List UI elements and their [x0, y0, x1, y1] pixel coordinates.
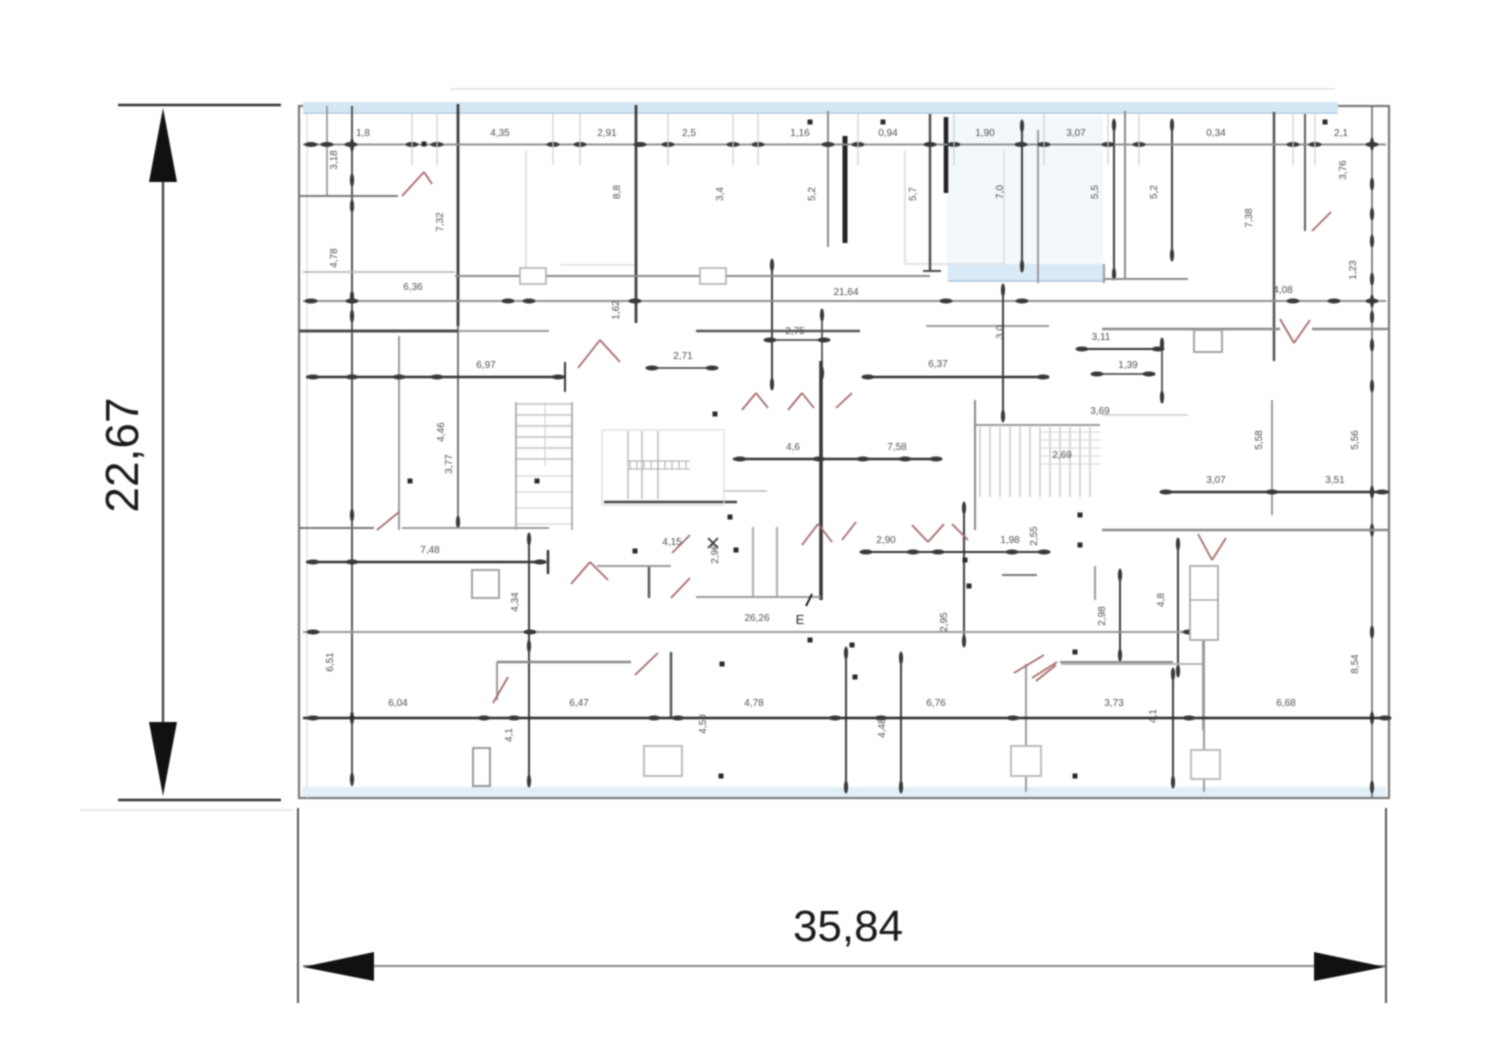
- extension line bottom-left: [297, 808, 299, 1003]
- svg-text:5,5: 5,5: [1090, 185, 1101, 199]
- svg-text:6,68: 6,68: [1276, 698, 1296, 709]
- vert dim line: [1021, 122, 1023, 271]
- svg-text:1,62: 1,62: [611, 300, 622, 320]
- bottom dimension line: [303, 717, 1386, 719]
- wall: [1271, 400, 1273, 515]
- svg-text:1,8: 1,8: [356, 128, 370, 139]
- shaft: [1190, 566, 1218, 640]
- dimension extension tick top-left: [118, 104, 281, 107]
- svg-text:0,94: 0,94: [878, 128, 898, 139]
- vert dim line: [1177, 539, 1179, 676]
- top dimension line: [303, 144, 1386, 146]
- svg-text:6,47: 6,47: [569, 698, 589, 709]
- svg-text:2,96: 2,96: [710, 544, 721, 564]
- svg-text:7,32: 7,32: [435, 212, 446, 232]
- blue band bottom: [302, 787, 1386, 797]
- blue sill right: [948, 264, 1104, 281]
- svg-text:2,55: 2,55: [1029, 526, 1040, 546]
- dim line 2,90: [860, 551, 1050, 553]
- extension stub: [857, 114, 859, 165]
- hinge dots: [713, 412, 718, 417]
- wall: [929, 114, 931, 271]
- wall: [1025, 664, 1027, 792]
- wall: [326, 106, 328, 196]
- vert dim line: [1371, 106, 1373, 797]
- dim line 4,6/7,58: [733, 458, 942, 460]
- extension stub: [411, 114, 413, 165]
- mid dimension line 21,64: [303, 300, 1386, 302]
- vertical dimension line 22,67: [162, 180, 164, 724]
- svg-text:6,04: 6,04: [388, 698, 408, 709]
- wall: [1104, 278, 1188, 280]
- svg-text:7,58: 7,58: [887, 442, 907, 453]
- extension stub: [757, 114, 759, 165]
- extension line bottom-right: [1385, 808, 1387, 1003]
- vert dim line: [1002, 285, 1004, 421]
- svg-text:7,48: 7,48: [420, 545, 440, 556]
- svg-text:3,18: 3,18: [329, 150, 340, 170]
- extension stub: [953, 114, 955, 165]
- svg-text:5,2: 5,2: [807, 187, 818, 201]
- extension stub: [1107, 114, 1109, 165]
- svg-text:3,69: 3,69: [1090, 406, 1110, 417]
- svg-text:2,98: 2,98: [1097, 606, 1108, 626]
- wall: [1094, 566, 1096, 600]
- wall: [1202, 597, 1204, 730]
- vert dim line: [845, 648, 847, 792]
- svg-text:2,91: 2,91: [597, 128, 617, 139]
- column: [644, 746, 682, 776]
- arrowhead up: [149, 108, 177, 182]
- wall: [455, 275, 636, 277]
- wall: [1102, 328, 1280, 330]
- dim line 2,71: [648, 367, 716, 369]
- wall: [926, 325, 1049, 327]
- svg-text:3,73: 3,73: [1104, 698, 1124, 709]
- staircase middle-left: [516, 403, 572, 405]
- wall: [696, 330, 860, 333]
- wall: [299, 195, 398, 197]
- svg-text:4,1: 4,1: [1148, 709, 1159, 723]
- faint room line: [560, 264, 636, 266]
- extension stub: [1138, 114, 1140, 165]
- faint room line: [1003, 150, 1005, 264]
- svg-text:1,16: 1,16: [790, 128, 810, 139]
- svg-text:2,1: 2,1: [1334, 128, 1348, 139]
- door bump: [520, 268, 546, 284]
- x marker: [708, 538, 718, 548]
- svg-text:4,8: 4,8: [1156, 593, 1167, 607]
- staircase left: [602, 430, 724, 505]
- svg-text:4,46: 4,46: [436, 422, 447, 442]
- wall: [299, 527, 374, 529]
- svg-text:2,5: 2,5: [682, 128, 696, 139]
- svg-text:6,36: 6,36: [403, 282, 423, 293]
- wall: [776, 527, 778, 597]
- svg-text:21,64: 21,64: [833, 287, 858, 298]
- wall: [1102, 529, 1389, 531]
- wall: [1304, 114, 1306, 231]
- dim line 1,39: [1093, 373, 1153, 375]
- svg-text:2,69: 2,69: [1052, 450, 1072, 461]
- dim line 6,37: [862, 376, 1049, 378]
- svg-text:5,56: 5,56: [1350, 430, 1361, 450]
- blue terrace right fill: [947, 116, 1103, 282]
- vert dim line: [1119, 570, 1121, 660]
- svg-text:8,8: 8,8: [612, 185, 623, 199]
- central wall dark: [819, 361, 823, 600]
- svg-text:1,98: 1,98: [1000, 535, 1020, 546]
- svg-text:2,75: 2,75: [785, 326, 805, 337]
- svg-text:E: E: [796, 612, 805, 627]
- vert dim line: [1172, 669, 1174, 787]
- faint room line: [525, 150, 527, 270]
- wall: [597, 565, 671, 567]
- wall: [724, 490, 767, 492]
- wall: [752, 527, 754, 597]
- faint room line: [904, 150, 906, 264]
- plan border: [299, 106, 1389, 798]
- elevator wall dark: [944, 117, 949, 193]
- svg-text:7,0: 7,0: [995, 185, 1006, 199]
- dim end bar: [564, 362, 566, 392]
- extension stub: [1292, 114, 1294, 165]
- extension stub: [1043, 114, 1045, 165]
- svg-text:22,67: 22,67: [96, 397, 148, 512]
- vert dim line: [771, 260, 773, 389]
- svg-text:3,07: 3,07: [1206, 475, 1226, 486]
- vert dim line: [1171, 120, 1173, 260]
- vert dim line: [528, 534, 530, 786]
- svg-text:3,0: 3,0: [995, 325, 1006, 339]
- gray dim ticks: [307, 630, 320, 635]
- svg-text:4,15: 4,15: [662, 537, 682, 548]
- svg-text:4,35: 4,35: [490, 128, 510, 139]
- dim line 2,75: [766, 339, 828, 341]
- arrowhead right: [1314, 952, 1385, 981]
- horizontal dimension line 35,84: [303, 965, 1385, 967]
- dim line 7,48: [306, 561, 546, 563]
- svg-text:1,90: 1,90: [975, 128, 995, 139]
- svg-text:6,97: 6,97: [476, 360, 496, 371]
- extension stub: [667, 114, 669, 165]
- extension stub: [436, 114, 438, 165]
- svg-text:3,07: 3,07: [1066, 128, 1086, 139]
- vert dim line: [457, 326, 459, 522]
- wall: [648, 566, 651, 598]
- wall: [1103, 264, 1105, 283]
- svg-text:7,38: 7,38: [1244, 208, 1255, 228]
- top dim ticks: [305, 142, 318, 147]
- dimension extension tick bottom-left: [118, 799, 281, 802]
- long gray dim line: [303, 631, 1201, 633]
- blue band top: [303, 102, 1338, 112]
- extension stub: [1314, 114, 1316, 165]
- wall: [497, 661, 631, 663]
- chimney: [1194, 330, 1222, 352]
- wall: [636, 275, 930, 277]
- svg-text:0,34: 0,34: [1206, 128, 1226, 139]
- wall: [457, 104, 460, 326]
- blue sill edge: [948, 280, 1104, 282]
- wall: [1312, 328, 1389, 330]
- svg-text:4,6: 4,6: [786, 442, 800, 453]
- wall: [1124, 111, 1126, 279]
- blue band top edge: [303, 112, 1338, 114]
- dim line 3,07/3,51: [1160, 491, 1389, 493]
- wall: [1060, 661, 1173, 663]
- extension stub: [579, 114, 581, 165]
- column: [1191, 750, 1220, 779]
- svg-text:6,51: 6,51: [325, 652, 336, 672]
- wall: [696, 596, 821, 598]
- svg-text:2,90: 2,90: [876, 535, 896, 546]
- arrowhead down: [149, 722, 177, 796]
- svg-text:3,11: 3,11: [1092, 332, 1111, 343]
- staircase right: [979, 427, 981, 497]
- vert dim line: [963, 503, 965, 646]
- svg-text:2,71: 2,71: [673, 351, 693, 362]
- arrowhead left: [303, 952, 374, 981]
- door bump: [700, 268, 726, 284]
- svg-text:3,51: 3,51: [1325, 475, 1345, 486]
- column: [1011, 746, 1041, 776]
- svg-text:1,39: 1,39: [1118, 360, 1138, 371]
- vert dim line: [821, 310, 823, 378]
- wall: [1273, 112, 1275, 361]
- wall: [458, 330, 549, 332]
- vert dim line: [1113, 120, 1115, 279]
- elevator wall dark: [843, 136, 848, 243]
- wall: [1037, 130, 1039, 283]
- svg-text:1,23: 1,23: [1348, 260, 1359, 280]
- wall: [827, 111, 829, 247]
- svg-text:35,84: 35,84: [793, 902, 903, 951]
- wall: [398, 336, 400, 530]
- wall: [635, 105, 638, 323]
- vert dim line: [900, 653, 902, 792]
- svg-text:6,76: 6,76: [926, 698, 946, 709]
- vert dim line: [1161, 339, 1163, 402]
- svg-text:5,2: 5,2: [1149, 185, 1160, 199]
- shaft: [472, 570, 499, 598]
- svg-text:5,7: 5,7: [908, 187, 919, 201]
- extension stub: [552, 114, 554, 165]
- bottom dim ticks: [307, 716, 320, 721]
- wall: [670, 652, 673, 718]
- shaft divider: [1190, 599, 1218, 601]
- dim line 2,11: [1078, 348, 1162, 350]
- wall: [1203, 632, 1205, 792]
- svg-text:4,08: 4,08: [1273, 285, 1293, 296]
- dim line 6,97: [306, 376, 565, 378]
- dim end bar: [547, 550, 550, 574]
- svg-text:8,54: 8,54: [1350, 654, 1361, 674]
- svg-text:26,26: 26,26: [744, 613, 769, 624]
- inner border shadow left: [306, 106, 308, 798]
- wall dark landing: [604, 501, 737, 504]
- svg-text:2,95: 2,95: [939, 612, 950, 632]
- svg-text:3,76: 3,76: [1338, 160, 1349, 180]
- wall: [1102, 414, 1188, 416]
- svg-text:4,48: 4,48: [877, 718, 888, 738]
- faint room line: [905, 263, 1004, 265]
- svg-text:4,34: 4,34: [510, 592, 521, 612]
- svg-text:3,4: 3,4: [715, 187, 726, 201]
- svg-text:4,1: 4,1: [504, 728, 515, 742]
- svg-text:4,78: 4,78: [744, 698, 764, 709]
- wall: [1002, 574, 1037, 576]
- svg-text:4,50: 4,50: [698, 714, 709, 734]
- svg-text:3,77: 3,77: [444, 454, 455, 474]
- faint top line: [450, 88, 1335, 90]
- svg-text:4,78: 4,78: [329, 248, 340, 268]
- column: [473, 748, 490, 786]
- svg-text:6,37: 6,37: [928, 359, 948, 370]
- wall: [303, 271, 455, 273]
- vert dim line: [351, 106, 353, 786]
- wall: [496, 662, 498, 700]
- wall dark: [299, 330, 458, 333]
- extension stub: [732, 114, 734, 165]
- faint page line: [80, 809, 292, 811]
- wall: [402, 527, 549, 529]
- red door swing marks: [402, 172, 424, 196]
- wall foot: [923, 270, 941, 272]
- mid dim ticks: [305, 299, 318, 304]
- wall: [1061, 663, 1202, 665]
- svg-text:5,58: 5,58: [1254, 430, 1265, 450]
